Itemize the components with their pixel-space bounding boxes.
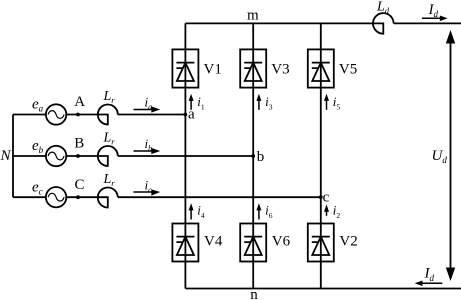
current arrow i_b [134, 148, 161, 154]
current arrow I_d bottom [415, 281, 443, 287]
inductor L_r phase c [98, 188, 118, 208]
current arrow i_6 [256, 203, 261, 219]
thyristor V2 box [308, 224, 334, 262]
wire phase c to node c [118, 196, 321, 198]
svg-text:V3: V3 [271, 62, 289, 78]
voltage arrow U_d line [450, 41, 452, 270]
svg-text:Lr: Lr [103, 89, 116, 105]
wire phase a to node a [118, 114, 186, 116]
svg-text:ic: ic [145, 177, 153, 194]
source e_c sine [48, 193, 64, 201]
wire phase a middle segment [66, 114, 98, 116]
svg-text:N: N [0, 148, 12, 164]
node a dot [184, 113, 188, 117]
svg-text:B: B [74, 136, 84, 152]
svg-text:m: m [247, 8, 259, 24]
wire phase c middle segment [66, 196, 98, 198]
wire bridge leg 1 [184, 23, 186, 288]
svg-text:Id: Id [424, 266, 435, 283]
svg-text:i2: i2 [333, 203, 341, 220]
svg-text:i6: i6 [265, 203, 273, 220]
svg-text:eb: eb [32, 138, 44, 155]
svg-text:b: b [257, 149, 265, 165]
wire left neutral bus [12, 115, 14, 198]
svg-text:a: a [188, 106, 195, 122]
source e_b sine [48, 152, 64, 160]
thyristor V2 symbol [312, 237, 330, 255]
source e_a sine [48, 111, 64, 119]
thyristor V4 box [172, 224, 198, 262]
thyristor V4 symbol [176, 237, 194, 255]
wire phase a left segment [13, 114, 46, 116]
thyristor V5 symbol [312, 63, 330, 81]
svg-text:V5: V5 [339, 62, 357, 78]
svg-text:Id: Id [428, 2, 439, 19]
svg-text:n: n [250, 287, 258, 300]
inductor L_r phase a [98, 105, 118, 125]
current arrow i_3 [256, 94, 261, 110]
current arrow I_d top [422, 16, 448, 22]
svg-text:i4: i4 [197, 203, 205, 220]
voltage arrow U_d heads [446, 30, 455, 281]
svg-text:i1: i1 [197, 94, 205, 111]
current arrow i_c [134, 189, 161, 195]
svg-text:V1: V1 [204, 62, 222, 78]
wire phase b middle segment [66, 155, 98, 157]
node b dot [251, 154, 255, 158]
thyristor V3 symbol [244, 63, 262, 81]
wire phase c left segment [13, 196, 46, 198]
svg-text:V4: V4 [204, 233, 223, 249]
inductor L_d [373, 13, 394, 34]
current arrow i_1 [189, 94, 194, 110]
thyristor V5 box [308, 49, 334, 87]
source e_b [46, 146, 66, 166]
thyristor V3 box [240, 49, 266, 87]
node c dot [319, 195, 323, 199]
svg-text:ia: ia [145, 94, 153, 111]
current arrow i_2 [324, 205, 329, 216]
svg-text:Ud: Ud [432, 148, 448, 165]
svg-text:ec: ec [32, 179, 43, 196]
svg-text:ib: ib [145, 136, 153, 153]
svg-text:i5: i5 [333, 94, 341, 111]
node B dot [76, 154, 80, 158]
wire top rail right of L_d [394, 22, 461, 24]
current arrow i_5 [324, 94, 329, 110]
current arrow i_4 [189, 203, 194, 219]
source e_a [46, 104, 66, 124]
thyristor V6 box [240, 224, 266, 262]
thyristor V1 box [172, 49, 198, 87]
current arrow i_a [134, 106, 161, 112]
inductor L_r phase b [98, 146, 118, 166]
wire phase b to node b [118, 155, 253, 157]
svg-text:A: A [74, 94, 85, 110]
wire bridge leg 2 [252, 23, 254, 288]
svg-text:V6: V6 [272, 233, 291, 249]
svg-text:Lr: Lr [103, 172, 116, 188]
node C dot [76, 195, 80, 199]
thyristor V1 symbol [176, 63, 194, 81]
wire bottom rail n [185, 288, 461, 290]
svg-text:Ld: Ld [376, 0, 390, 16]
node A dot [76, 113, 80, 117]
wire phase b left segment [13, 155, 46, 157]
svg-text:V2: V2 [339, 233, 357, 249]
svg-text:ea: ea [32, 96, 44, 113]
svg-text:c: c [323, 189, 330, 205]
thyristor V6 symbol [244, 237, 262, 255]
wire top rail m [185, 22, 373, 24]
source e_c [46, 187, 66, 207]
svg-text:Lr: Lr [103, 131, 116, 147]
svg-text:i3: i3 [265, 94, 273, 111]
wire bridge leg 3 [320, 23, 322, 288]
svg-text:C: C [75, 177, 85, 193]
